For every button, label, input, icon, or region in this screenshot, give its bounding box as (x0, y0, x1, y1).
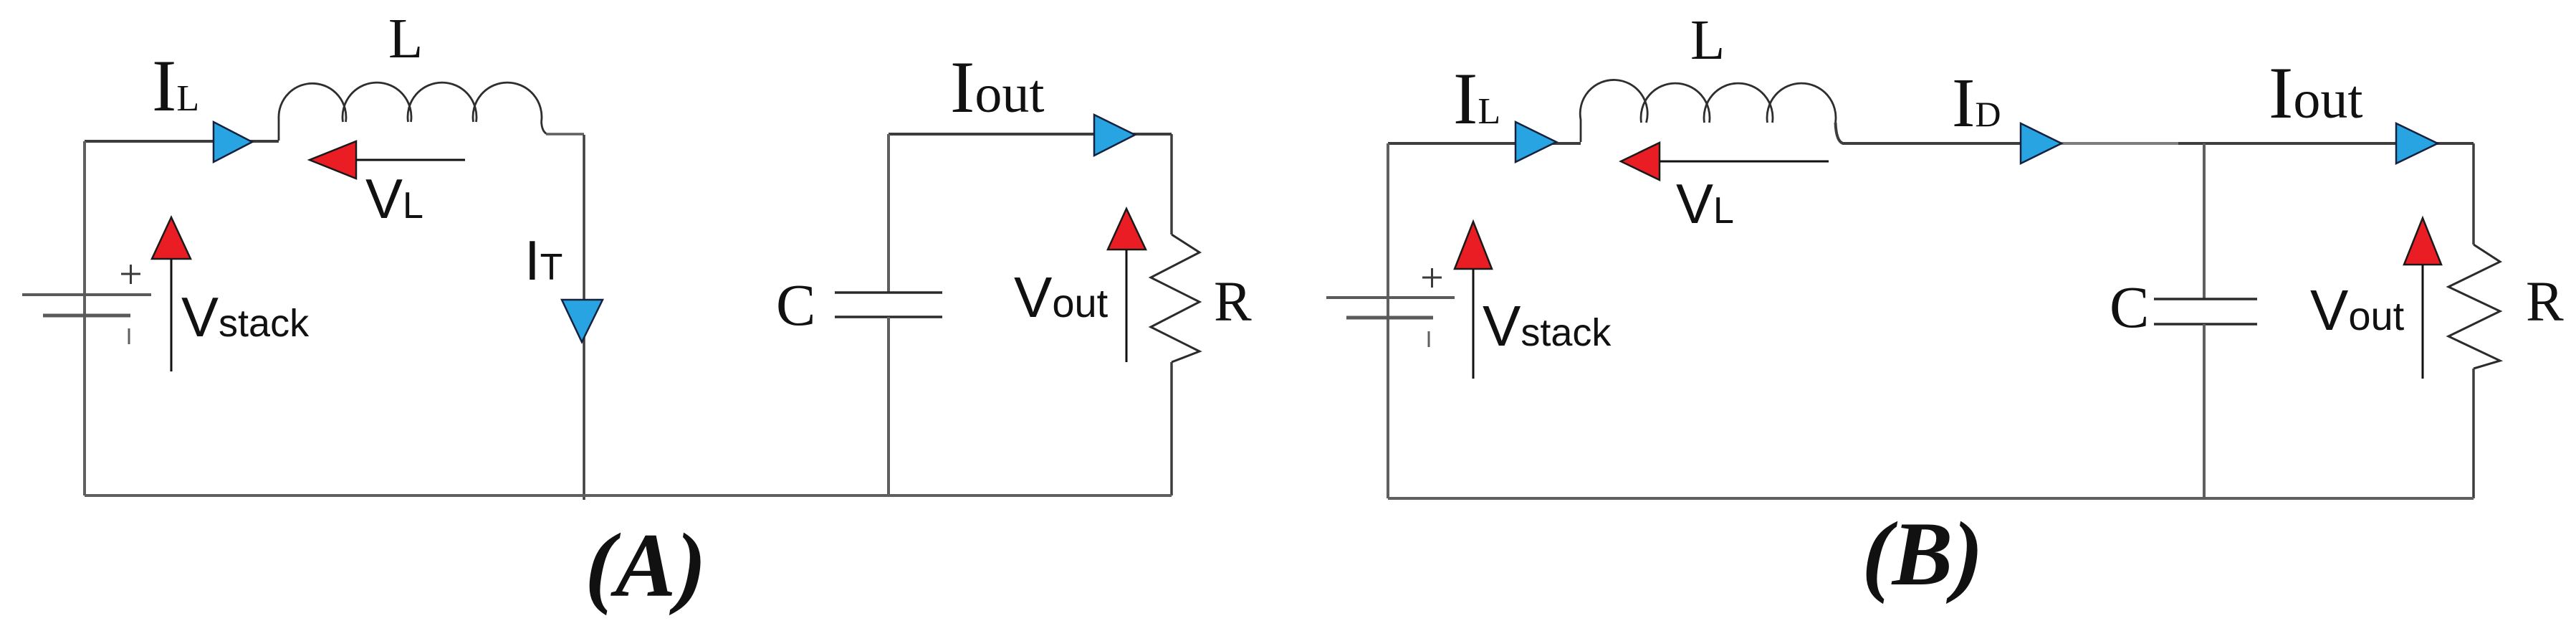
wire bottom A (85, 494, 1172, 497)
battery V1 long plate (22, 293, 151, 296)
arrow Vstack B (red up) (1455, 222, 1492, 379)
resistor R A (1151, 134, 1200, 495)
battery V2 short plate (1346, 316, 1433, 320)
arrow IT (blue down) (562, 300, 603, 342)
capacitor C B top lead (2203, 143, 2206, 299)
wire left vertical through battery A (83, 141, 86, 495)
svg-text:C: C (776, 272, 815, 338)
svg-text:L: L (1690, 9, 1725, 72)
battery V1 plus sign (121, 265, 140, 284)
arrow Iout A (blue right) (1094, 115, 1135, 156)
wire top-left horizontal B (1388, 142, 1581, 145)
wire output top A (889, 133, 1172, 136)
arrow VL B (red left) (1621, 143, 1829, 180)
battery V1 minus mark (128, 328, 130, 344)
arrow IL A (blue right) (214, 122, 252, 162)
svg-text:(A): (A) (585, 516, 706, 616)
arrow IL B (blue right) (1516, 122, 1556, 162)
arrow Vout A (red up) (1108, 209, 1146, 362)
capacitor C A top lead (887, 134, 890, 293)
arrow VL A (red left) (310, 141, 465, 179)
battery V1 short plate (43, 314, 130, 318)
wire inductor B to output node (1836, 123, 2025, 143)
inductor L B (1580, 80, 1836, 142)
wire top-left horizontal A (85, 140, 279, 143)
svg-text:L: L (388, 8, 423, 70)
battery V2 long plate (1326, 296, 1455, 299)
svg-text:R: R (1214, 271, 1252, 333)
svg-text:(B): (B) (1862, 504, 1983, 604)
wire inductor A to IT corner (542, 122, 548, 134)
wire left vertical through battery B (1387, 143, 1389, 498)
capacitor C A plates (835, 293, 942, 317)
capacitor C B bottom lead (2203, 324, 2206, 498)
arrow Vout B (red up) (2404, 218, 2441, 379)
resistor R B (2448, 143, 2500, 498)
svg-text:R: R (2526, 271, 2564, 333)
arrow Iout B (blue right) (2396, 123, 2438, 163)
arrow Vstack A (red up) (152, 217, 191, 371)
battery V2 plus sign (1422, 268, 1442, 288)
capacitor C B plates (2154, 299, 2257, 324)
svg-text:C: C (2110, 274, 2149, 340)
inductor L A (279, 82, 542, 141)
wire IT vertical A (583, 135, 585, 500)
capacitor C A bottom lead (887, 317, 890, 495)
arrow ID (blue right) (2021, 123, 2062, 163)
battery V2 minus mark (1428, 331, 1430, 347)
wire bottom B (1388, 497, 2474, 500)
